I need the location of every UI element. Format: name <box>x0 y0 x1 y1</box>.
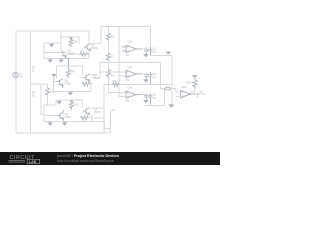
stage2: box left/bottom <box>54 77 91 91</box>
stage2: top wire <box>57 65 83 67</box>
wire mid long horizontal <box>104 84 172 86</box>
resistor R5 horizontal <box>80 52 89 56</box>
svg-text:R13: R13 <box>74 104 79 107</box>
svg-text:OA3: OA3 <box>128 87 134 90</box>
stage2: left vertical drop <box>56 66 58 79</box>
svg-text:741: 741 <box>125 100 130 103</box>
left inner vertical <box>41 84 44 115</box>
op-amp OA1 output arrow <box>136 48 139 50</box>
ground arrow under stage4 top <box>57 100 61 104</box>
left inner column wire <box>31 83 48 85</box>
power flag final <box>193 76 196 81</box>
small component before oa4 <box>166 87 170 90</box>
capacitor C1 <box>144 47 148 54</box>
stage4: left entry <box>44 100 56 105</box>
svg-text:out: out <box>199 91 203 94</box>
svg-text:2N39: 2N39 <box>94 111 101 114</box>
wire corner down right <box>161 63 166 89</box>
ground under C3 <box>144 79 148 82</box>
wire stage4 junction <box>89 115 91 122</box>
stage4: box <box>44 105 105 121</box>
op-amp OA2 output arrow <box>136 73 139 75</box>
capacitor C5 <box>144 93 148 100</box>
wire oa2 out to caps <box>142 72 147 74</box>
junction dot <box>88 53 90 55</box>
wire R8 down <box>107 78 109 93</box>
logo LAB box <box>27 159 39 163</box>
stage1: resistor R4 zigzag <box>69 37 73 46</box>
wire bottom rail <box>16 132 110 134</box>
resistor R7 <box>106 53 110 61</box>
junction dot R9 top <box>68 58 70 60</box>
wire R7-R8 <box>107 61 109 70</box>
ground under bias wire <box>50 43 54 47</box>
wire second vertical <box>30 31 32 133</box>
wire R12 drop <box>47 84 49 88</box>
wire rail2 long drop <box>118 27 120 97</box>
stage1: drop to Q2 <box>88 31 90 44</box>
resistor R8 <box>106 70 110 78</box>
svg-text:http://circuitlab.com/crep29nw: http://circuitlab.com/crep29nwa2ywoa <box>57 159 114 163</box>
stage4: top wire <box>56 99 82 101</box>
junction dot stage2 <box>90 83 92 85</box>
wire out stub down <box>197 94 199 98</box>
wire oa2 upper input <box>100 71 126 73</box>
wire oa3 lower input <box>119 96 126 98</box>
wire rail2 drop to R chain <box>107 27 109 34</box>
svg-text:2N39: 2N39 <box>91 47 98 50</box>
svg-text:R12: R12 <box>50 91 55 94</box>
stage1: base wire <box>44 51 63 53</box>
wire top rail right <box>101 26 151 28</box>
svg-text:OA4: OA4 <box>181 86 187 89</box>
svg-text:OA2: OA2 <box>128 66 134 69</box>
capacitor C4 <box>148 72 152 84</box>
wire top rail left <box>16 30 89 32</box>
wire oa4 upper in <box>170 89 181 93</box>
wire q1 to r5 <box>66 53 80 55</box>
wire oa1 out to caps <box>142 47 147 49</box>
ground right bottom <box>169 104 173 108</box>
wire rail2 left drop <box>100 27 102 44</box>
ground under stage2 box <box>69 91 73 94</box>
stage1: bottom wire <box>44 57 89 59</box>
resistor R6 <box>106 33 110 41</box>
wire oa2 lower input <box>119 75 126 77</box>
ground under C5 <box>144 100 148 103</box>
wire stage2 junction <box>90 81 91 91</box>
wire junction drops <box>88 51 90 59</box>
op-amp OA3 output arrow <box>136 94 139 96</box>
wire oa3 upper input <box>108 92 126 94</box>
resistor R14 horizontal <box>81 116 89 120</box>
stage2: resistor R9 zigzag <box>66 58 70 78</box>
transistor Q5 <box>57 110 64 122</box>
capacitor C6 <box>148 93 152 106</box>
wire R6-R7 <box>107 41 109 53</box>
footer bar <box>0 152 220 165</box>
svg-text:LAB: LAB <box>29 160 37 164</box>
svg-text:2N39: 2N39 <box>65 116 72 119</box>
stage2: drop to Q4 <box>81 66 83 74</box>
stage1: bias top wire <box>61 37 79 43</box>
wire junction row extension <box>92 117 104 119</box>
wire stage2 out up and right <box>94 63 161 78</box>
svg-text:9V: 9V <box>20 76 23 79</box>
resistor R15 final <box>193 80 197 89</box>
junction dot out <box>197 93 199 95</box>
svg-text:2N39: 2N39 <box>68 53 75 56</box>
ground under C1 <box>144 54 148 57</box>
svg-text:741: 741 <box>125 54 130 57</box>
resistor R11 small horizontal <box>113 83 119 86</box>
ground under stage4 box left <box>48 122 52 126</box>
power flag <box>167 52 170 54</box>
wire left rail vertical <box>15 31 17 133</box>
ground on bottom wire left <box>48 58 52 62</box>
wire rail2 right corner drop <box>150 27 152 48</box>
wire Q2 collector to rail2 <box>90 43 101 45</box>
capacitor C3 <box>144 72 148 79</box>
capacitor C2 <box>148 47 152 56</box>
op-amp OA4 <box>181 90 196 97</box>
wire oa4 lower in <box>176 96 180 98</box>
op-amp OA4 output arrow <box>190 93 193 95</box>
wire oa4 out <box>196 93 207 95</box>
wire oa3 out to caps <box>142 93 147 95</box>
wire right long vertical <box>171 56 173 104</box>
wire Q6 collector out <box>89 85 104 133</box>
svg-text:R11: R11 <box>112 80 117 83</box>
net tick on x119 <box>119 79 122 81</box>
svg-text:2N39: 2N39 <box>65 83 72 86</box>
transistor Q1 <box>61 50 66 58</box>
transistor Q6 <box>83 108 90 115</box>
op-amp OA3 <box>126 91 142 98</box>
resistor R10 horizontal <box>82 82 90 86</box>
transistor Q2 <box>84 44 91 51</box>
op-amp OA1 <box>122 45 142 52</box>
resistor R12 <box>46 88 50 95</box>
wire R12 to stage4 <box>47 95 49 105</box>
svg-text:jmort182 / Project Electronic: jmort182 / Project Electronic Devices <box>56 154 119 158</box>
wire caps to right flag <box>151 55 172 57</box>
stage4: drop to Q6 <box>81 100 83 108</box>
ground mid-left stage2 <box>52 74 55 77</box>
svg-text:OA1: OA1 <box>128 41 134 44</box>
wire Q4 collector out <box>89 74 93 78</box>
stage1: wire drop to Q1 collector <box>60 31 62 50</box>
logo lines <box>9 161 26 163</box>
stage1: left bias wire <box>44 42 61 44</box>
op-amp OA2 <box>126 70 142 77</box>
transistor Q3 <box>57 79 63 88</box>
ground on bottom wire right <box>59 58 63 62</box>
svg-text:741: 741 <box>125 79 130 82</box>
voltage source V1 <box>13 72 18 77</box>
svg-text:R15: R15 <box>187 82 192 85</box>
junction dot stage4 <box>91 117 93 119</box>
wire R15 to oa4 <box>191 89 196 92</box>
ground under stage4 box right <box>63 122 67 126</box>
wire stage4 bottom right net <box>104 111 111 134</box>
transistor Q4 <box>83 74 90 81</box>
stage1: left vertical <box>43 43 45 59</box>
wire oa3 box right <box>144 89 165 106</box>
stage4: resistor R13 zigzag <box>70 100 74 110</box>
